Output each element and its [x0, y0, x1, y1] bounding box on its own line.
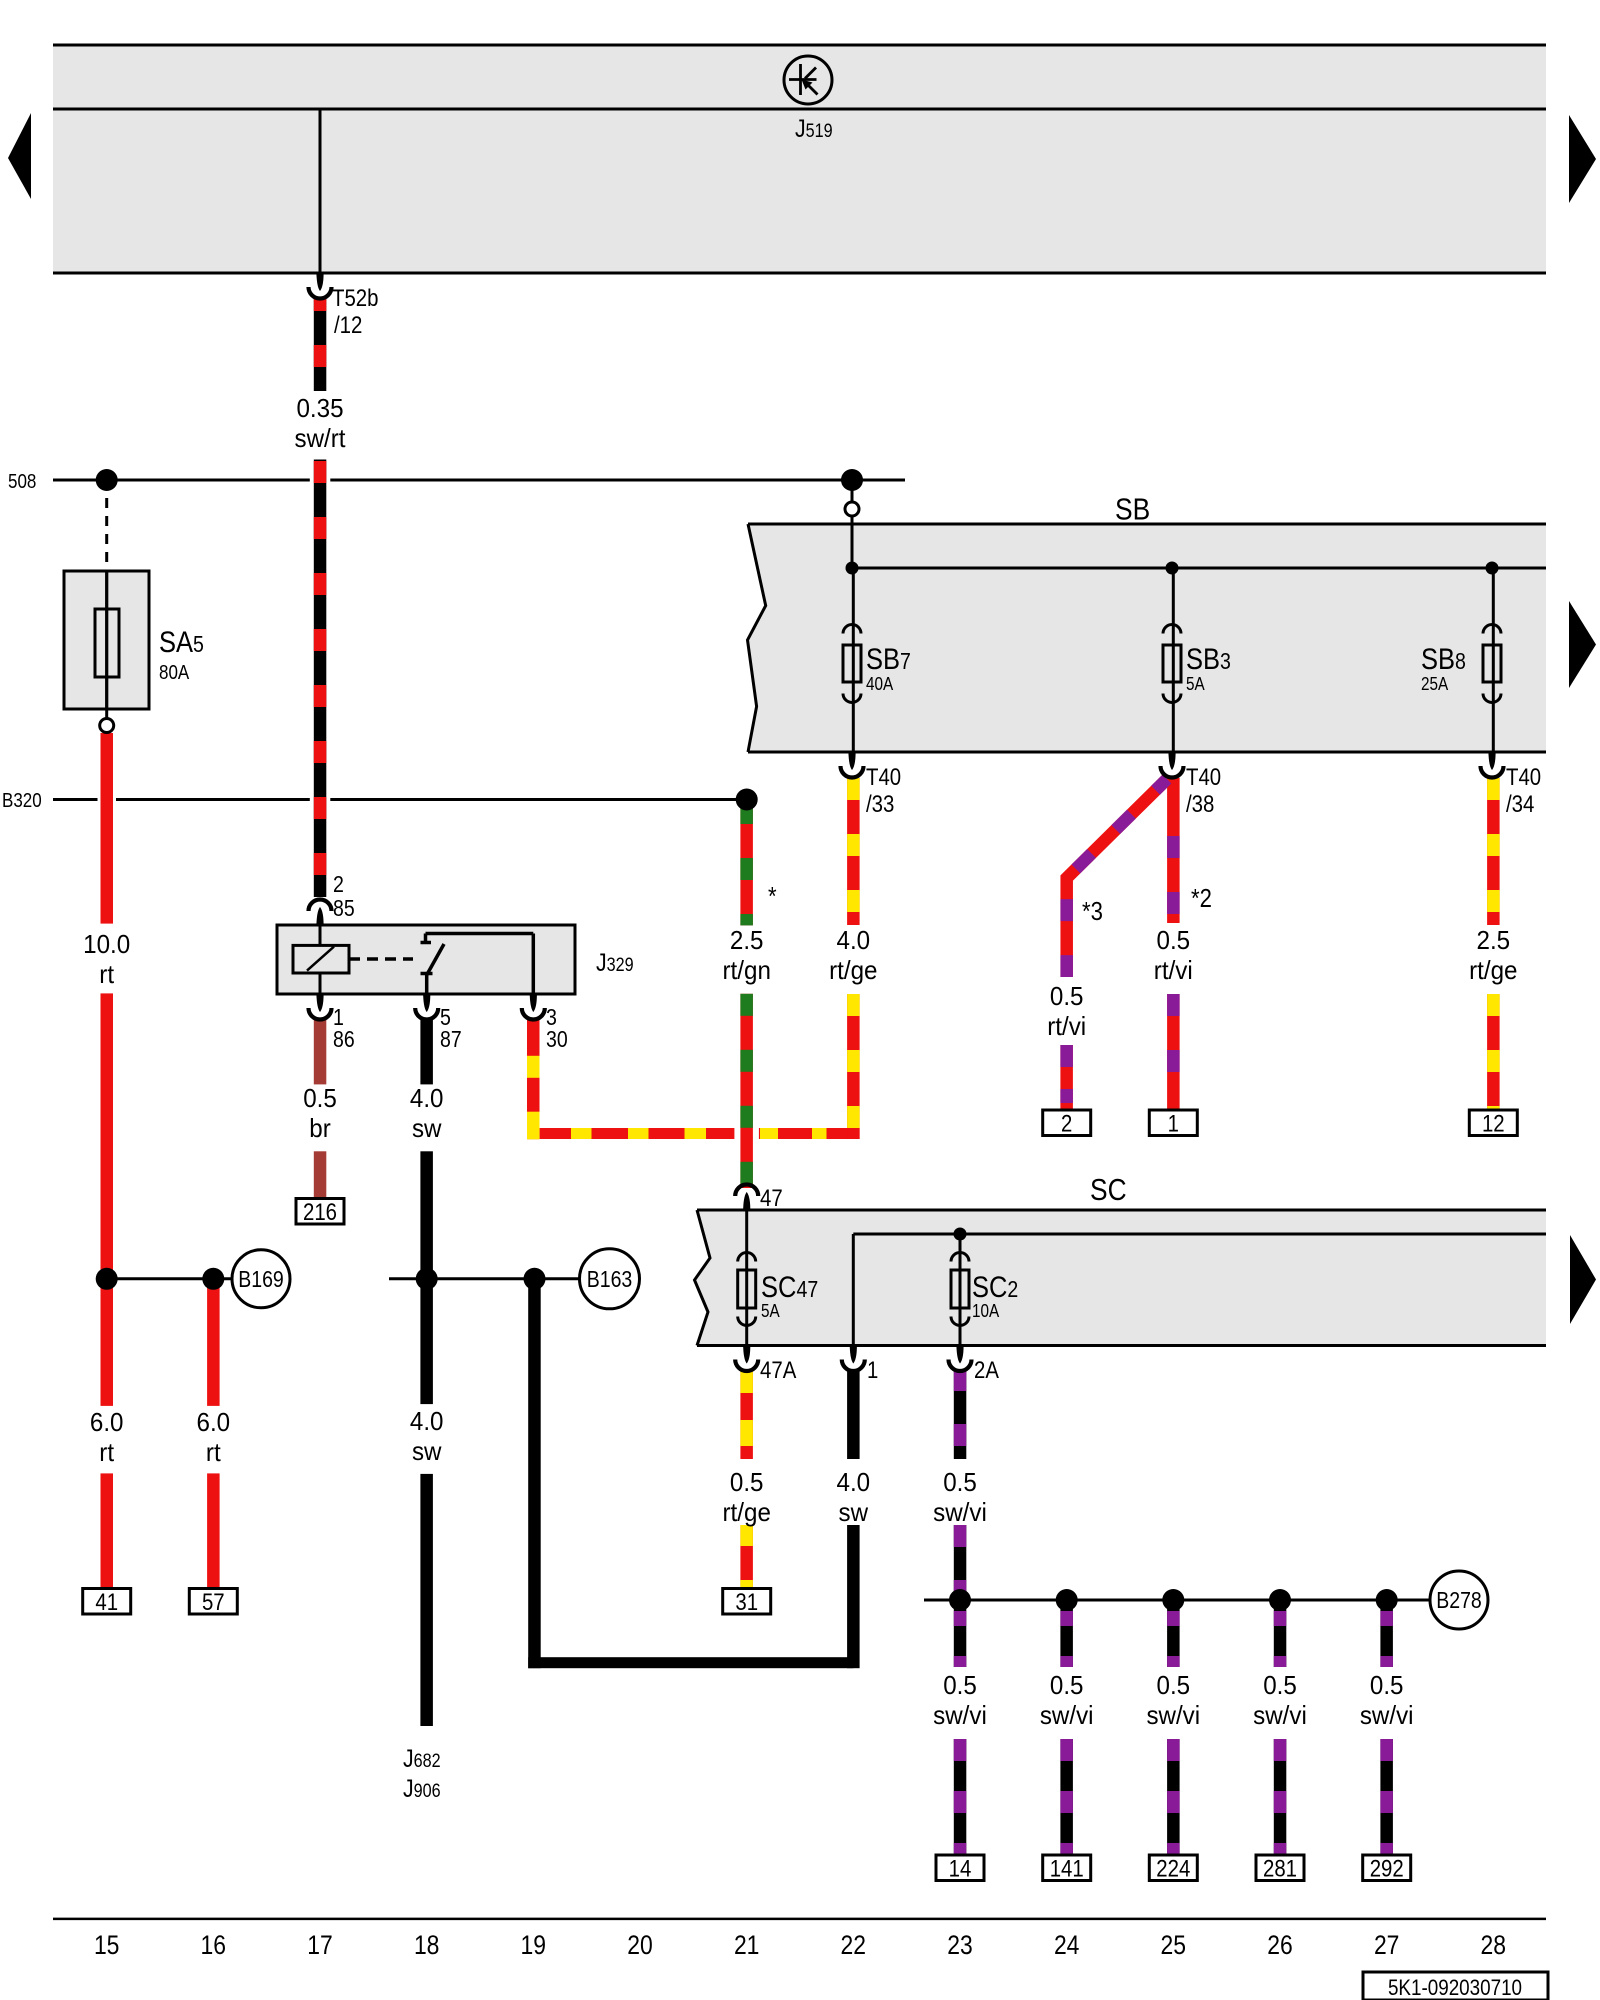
svg-text:0.5: 0.5	[303, 1083, 337, 1113]
svg-text:0.5: 0.5	[943, 1670, 977, 1700]
svg-text:30: 30	[546, 1026, 568, 1052]
svg-text:/38: /38	[1186, 791, 1214, 818]
svg-text:26: 26	[1267, 1930, 1293, 1960]
svg-text:*3: *3	[1082, 896, 1103, 926]
svg-text:80A: 80A	[159, 662, 190, 684]
svg-text:4.0: 4.0	[837, 925, 871, 955]
svg-text:2: 2	[1061, 1111, 1072, 1138]
svg-text:14: 14	[949, 1856, 972, 1883]
svg-text:B169: B169	[238, 1266, 284, 1292]
svg-text:sw/rt: sw/rt	[295, 423, 347, 453]
svg-text:SC47: SC47	[761, 1271, 818, 1304]
svg-text:T52b: T52b	[332, 285, 379, 312]
svg-text:87: 87	[440, 1026, 462, 1052]
svg-text:47A: 47A	[760, 1357, 796, 1384]
svg-text:0.5: 0.5	[1157, 1670, 1191, 1700]
svg-text:T40: T40	[866, 764, 901, 791]
svg-text:SB: SB	[1115, 492, 1150, 527]
svg-text:B320: B320	[2, 790, 42, 812]
svg-text:141: 141	[1050, 1856, 1084, 1883]
svg-text:rt/vi: rt/vi	[1154, 955, 1193, 985]
svg-text:17: 17	[307, 1930, 333, 1960]
svg-text:25A: 25A	[1421, 674, 1448, 694]
svg-text:25: 25	[1161, 1930, 1187, 1960]
svg-text:SB7: SB7	[866, 643, 911, 676]
svg-text:rt/ge: rt/ge	[1469, 955, 1517, 985]
svg-text:*2: *2	[1191, 883, 1212, 913]
svg-text:22: 22	[841, 1930, 867, 1960]
svg-text:12: 12	[1482, 1111, 1505, 1138]
svg-text:rt/gn: rt/gn	[723, 955, 771, 985]
svg-text:15: 15	[94, 1930, 120, 1960]
svg-text:41: 41	[95, 1589, 118, 1616]
svg-text:10.0: 10.0	[83, 929, 130, 959]
svg-text:SC: SC	[1090, 1172, 1127, 1207]
svg-text:4.0: 4.0	[410, 1406, 444, 1436]
svg-text:28: 28	[1481, 1930, 1507, 1960]
svg-text:2.5: 2.5	[730, 925, 764, 955]
svg-text:2A: 2A	[974, 1357, 999, 1384]
svg-text:57: 57	[202, 1589, 225, 1616]
svg-text:23: 23	[947, 1930, 973, 1960]
svg-text:/33: /33	[866, 791, 894, 818]
svg-text:27: 27	[1374, 1930, 1400, 1960]
svg-text:1: 1	[1168, 1111, 1179, 1138]
svg-text:0.5: 0.5	[1050, 1670, 1084, 1700]
svg-text:19: 19	[521, 1930, 547, 1960]
svg-text:SB3: SB3	[1186, 643, 1231, 676]
svg-text:sw: sw	[839, 1497, 869, 1527]
svg-text:0.5: 0.5	[1263, 1670, 1297, 1700]
svg-text:5A: 5A	[1186, 674, 1205, 694]
svg-text:6.0: 6.0	[90, 1407, 124, 1437]
svg-text:508: 508	[8, 471, 36, 493]
svg-text:18: 18	[414, 1930, 440, 1960]
svg-text:0.35: 0.35	[296, 393, 343, 423]
svg-text:5K1-092030710: 5K1-092030710	[1388, 1975, 1522, 2000]
svg-text:20: 20	[627, 1930, 653, 1960]
svg-text:0.5: 0.5	[1370, 1670, 1404, 1700]
svg-text:B278: B278	[1436, 1587, 1482, 1613]
svg-text:T40: T40	[1186, 764, 1221, 791]
svg-text:rt: rt	[99, 1437, 115, 1467]
svg-text:24: 24	[1054, 1930, 1080, 1960]
svg-text:16: 16	[201, 1930, 227, 1960]
svg-text:10A: 10A	[972, 1301, 999, 1321]
svg-text:4.0: 4.0	[837, 1467, 871, 1497]
svg-text:224: 224	[1156, 1856, 1190, 1883]
svg-text:40A: 40A	[866, 674, 893, 694]
svg-text:6.0: 6.0	[197, 1407, 231, 1437]
svg-text:br: br	[309, 1113, 331, 1143]
svg-text:SA5: SA5	[159, 626, 204, 659]
svg-text:/34: /34	[1506, 791, 1534, 818]
svg-text:2: 2	[333, 871, 344, 897]
svg-text:/12: /12	[334, 312, 362, 339]
svg-text:0.5: 0.5	[943, 1467, 977, 1497]
svg-text:rt/ge: rt/ge	[829, 955, 877, 985]
svg-text:281: 281	[1263, 1856, 1297, 1883]
svg-text:47: 47	[760, 1185, 783, 1212]
svg-text:SB8: SB8	[1421, 643, 1466, 676]
svg-text:292: 292	[1370, 1856, 1404, 1883]
svg-text:sw/vi: sw/vi	[933, 1700, 987, 1730]
svg-text:86: 86	[333, 1026, 355, 1052]
svg-text:SC2: SC2	[972, 1271, 1018, 1304]
svg-text:sw/vi: sw/vi	[1253, 1700, 1307, 1730]
svg-text:216: 216	[303, 1199, 337, 1226]
svg-text:B163: B163	[587, 1266, 633, 1292]
svg-text:rt/vi: rt/vi	[1047, 1011, 1086, 1041]
svg-text:sw: sw	[412, 1113, 442, 1143]
svg-text:rt/ge: rt/ge	[723, 1497, 771, 1527]
svg-text:sw/vi: sw/vi	[1146, 1700, 1200, 1730]
svg-text:0.5: 0.5	[730, 1467, 764, 1497]
svg-text:sw: sw	[412, 1436, 442, 1466]
svg-text:31: 31	[735, 1589, 758, 1616]
svg-text:sw/vi: sw/vi	[1040, 1700, 1094, 1730]
svg-text:0.5: 0.5	[1050, 981, 1084, 1011]
svg-text:rt: rt	[99, 959, 115, 989]
svg-text:2.5: 2.5	[1477, 925, 1511, 955]
svg-text:21: 21	[734, 1930, 760, 1960]
svg-text:sw/vi: sw/vi	[1360, 1700, 1414, 1730]
svg-text:0.5: 0.5	[1157, 925, 1191, 955]
svg-text:1: 1	[867, 1357, 878, 1384]
svg-text:*: *	[768, 881, 777, 911]
svg-text:sw/vi: sw/vi	[933, 1497, 987, 1527]
svg-text:T40: T40	[1506, 764, 1541, 791]
svg-text:4.0: 4.0	[410, 1083, 444, 1113]
svg-text:5A: 5A	[761, 1301, 780, 1321]
svg-text:85: 85	[333, 895, 355, 921]
svg-text:rt: rt	[206, 1437, 222, 1467]
